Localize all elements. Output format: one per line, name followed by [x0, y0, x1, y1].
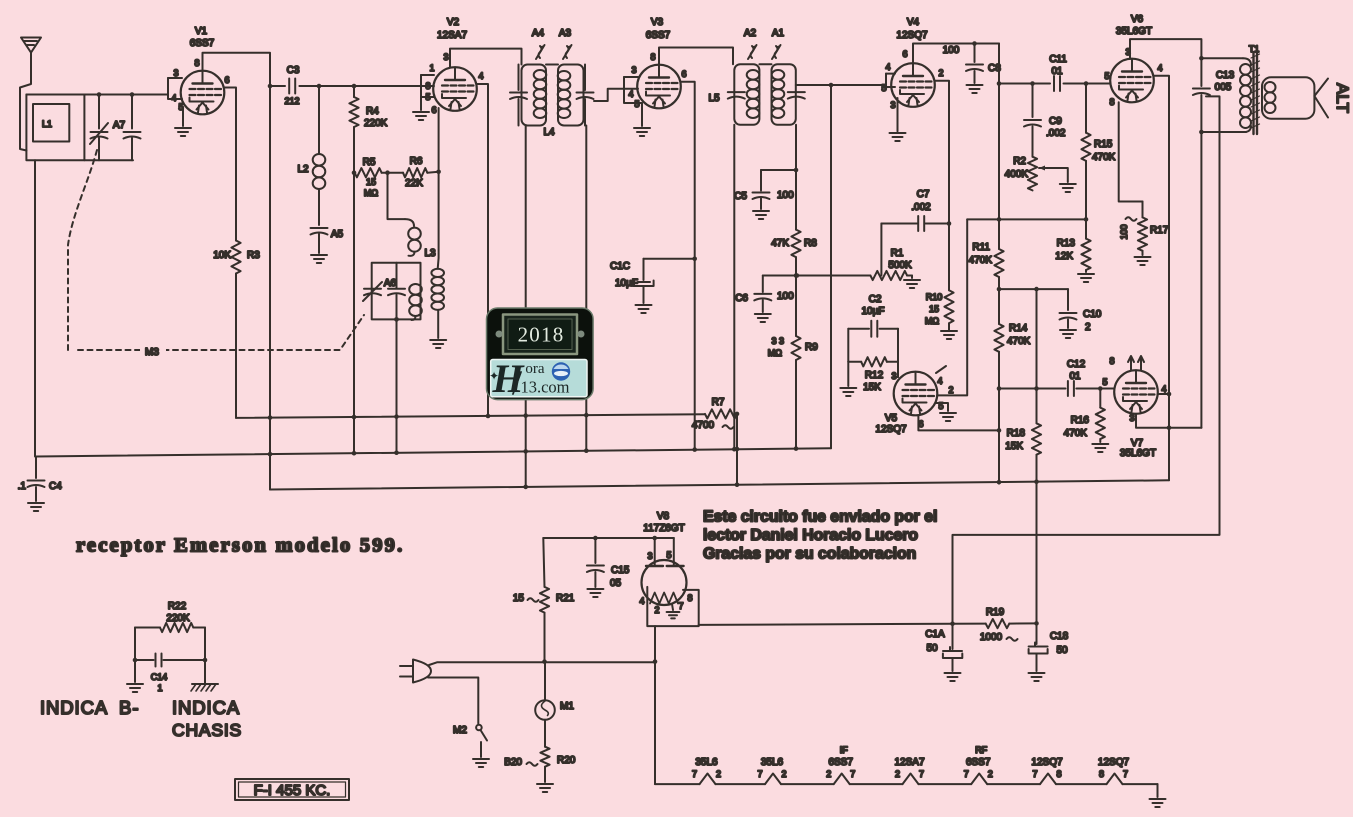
junction: [317, 84, 322, 89]
pin 5 V4: [881, 74, 895, 93]
svg-text:R19: R19: [986, 607, 1005, 618]
svg-text:8: 8: [1109, 356, 1114, 366]
svg-text:V8: V8: [657, 511, 670, 522]
wire plate return to V7: [1169, 427, 1201, 429]
pin 8 V6: [1109, 97, 1142, 202]
svg-text:470K: 470K: [1064, 428, 1088, 439]
coil L4 primary: [534, 70, 547, 118]
svg-text:400K: 400K: [1005, 169, 1029, 180]
pin 6 V3: [681, 69, 695, 449]
wire V2 pin6 branch: [437, 108, 440, 269]
pin 6 V1: [224, 75, 236, 241]
tube V8 117Z6GT: [642, 511, 687, 605]
junction: [352, 84, 357, 89]
junction: [394, 317, 399, 322]
svg-text:R22: R22: [168, 601, 187, 612]
pin 4 V1: [168, 78, 182, 103]
svg-text:R8: R8: [804, 238, 817, 249]
ground R10: [941, 331, 957, 339]
trimmer A2: [744, 28, 757, 59]
ground R17: [1135, 257, 1151, 265]
svg-text:35L6GT: 35L6GT: [1120, 448, 1156, 459]
svg-text:R12: R12: [865, 370, 884, 381]
svg-text:M3: M3: [145, 347, 159, 358]
tube V3 6SS7: [637, 17, 681, 108]
svg-text:C13: C13: [1216, 70, 1235, 81]
svg-text:A2: A2: [744, 28, 757, 39]
capacitor L5 secondary cap: [788, 92, 805, 99]
svg-text:A1: A1: [772, 28, 785, 39]
trimmer A1: [772, 28, 785, 59]
resistor R5 15Meg: [355, 157, 403, 198]
ground V3: [634, 128, 650, 136]
svg-text:A5: A5: [331, 229, 344, 240]
svg-text:13.com: 13.com: [520, 378, 569, 397]
svg-text:ora: ora: [525, 361, 544, 377]
pin 2 V5: [948, 385, 953, 395]
wire grid wire into V2: [418, 85, 421, 87]
coil L3 oscillator winding: [388, 173, 436, 259]
svg-text:8: 8: [650, 52, 655, 62]
wire A6 to bus B: [396, 319, 398, 452]
svg-text:RF: RF: [975, 745, 987, 755]
svg-text:2018: 2018: [518, 323, 565, 347]
svg-text:05: 05: [610, 578, 622, 589]
svg-text:C1A: C1A: [925, 629, 945, 640]
svg-text:220K: 220K: [364, 118, 388, 129]
wire AVC line: [763, 275, 871, 277]
svg-text:212: 212: [284, 96, 299, 106]
svg-text:4: 4: [171, 93, 176, 103]
antenna: [20, 38, 41, 151]
svg-text:15K: 15K: [863, 382, 881, 393]
svg-text:6SS7: 6SS7: [828, 757, 853, 768]
capacitor C2 10uF: [848, 294, 898, 337]
svg-text:Este circuito fue enviado por: Este circuito fue enviado por el: [703, 509, 937, 526]
svg-text:4: 4: [478, 71, 483, 81]
capacitor A7 fixed section: [113, 95, 141, 161]
svg-text:10µF: 10µF: [862, 306, 885, 317]
coil L5 secondary: [772, 70, 785, 118]
svg-text:3 3: 3 3: [771, 336, 784, 346]
tube heater 6SS7 pins 2-7: [826, 745, 855, 779]
junction: [795, 273, 800, 278]
svg-text:470K: 470K: [1007, 336, 1031, 347]
svg-text:7: 7: [850, 769, 855, 779]
capacitor C8: [966, 44, 1001, 84]
svg-text:Gracias por su colaboracion: Gracias por su colaboracion: [703, 546, 916, 563]
svg-text:6: 6: [431, 105, 436, 115]
junction: [268, 84, 273, 89]
pin 1 V2: [421, 63, 435, 75]
tube V6 35L6GT: [1110, 14, 1154, 102]
resistor R8 47K: [771, 230, 817, 276]
svg-text:470K: 470K: [969, 255, 993, 266]
resistor R10 15Meg: [925, 224, 954, 331]
svg-text:5: 5: [634, 99, 639, 109]
svg-text:R9: R9: [805, 342, 818, 353]
resistor R14 470K: [994, 289, 1030, 484]
ground L3: [430, 340, 446, 348]
coil L5 primary: [747, 70, 760, 118]
svg-text:V6: V6: [1131, 14, 1144, 25]
svg-text:B20: B20: [504, 757, 522, 768]
resistor R22 220K: [135, 601, 205, 632]
svg-text:7: 7: [757, 769, 762, 779]
capacitor C9 002: [1024, 84, 1066, 157]
pin 5 V5: [936, 401, 948, 411]
svg-text:INDICA: INDICA: [172, 697, 240, 718]
svg-text:8: 8: [1099, 769, 1104, 779]
svg-text:6: 6: [918, 419, 923, 429]
svg-text:C1C: C1C: [610, 261, 630, 272]
svg-text:47K: 47K: [771, 238, 789, 249]
pin 3 V5: [891, 371, 898, 381]
svg-text:5: 5: [1102, 377, 1107, 387]
ground C5: [753, 211, 769, 219]
svg-text:12SA7: 12SA7: [894, 757, 924, 768]
svg-text:L2: L2: [297, 164, 309, 175]
trimmer A3: [559, 28, 572, 59]
svg-text:R18: R18: [1007, 428, 1026, 439]
capacitor C14: [133, 628, 208, 694]
wire heater string: [655, 774, 1158, 798]
junction: [997, 428, 1002, 433]
svg-text:2: 2: [1085, 322, 1091, 333]
svg-text:15: 15: [366, 177, 376, 187]
wire plate node down to bus C: [269, 86, 271, 490]
svg-text:C9: C9: [1049, 116, 1062, 127]
wire bus B: [36, 446, 831, 456]
capacitor C15 05: [587, 538, 630, 589]
capacitor C13 005: [1193, 58, 1235, 428]
svg-text:R1: R1: [891, 248, 904, 259]
pin 2 V4 route: [936, 68, 950, 224]
ground V2: [413, 97, 429, 120]
ground C1A: [945, 673, 961, 681]
svg-text:50: 50: [926, 643, 938, 654]
svg-text:lector Daniel Horacio Lucero: lector Daniel Horacio Lucero: [703, 527, 918, 544]
tube V7 35L6GT: [1114, 370, 1158, 459]
pin 5 V3: [624, 89, 642, 126]
transformer T1: [1240, 44, 1260, 134]
tube V2 12SA7: [433, 17, 477, 111]
svg-text:4: 4: [628, 89, 633, 99]
svg-text:4: 4: [1161, 384, 1166, 394]
pin 4 V6: [1154, 63, 1169, 480]
resistor R16 470K: [1064, 389, 1105, 443]
svg-text:R15: R15: [1094, 139, 1113, 150]
ground R16: [1092, 444, 1108, 452]
junction: [1098, 386, 1103, 391]
wire detector output line: [999, 388, 1037, 390]
ground V1 cathode: [175, 128, 191, 136]
tube heater 35L6 pins 7-2: [692, 757, 721, 779]
watermark Hora13: [487, 308, 594, 401]
svg-text:100: 100: [777, 190, 794, 201]
svg-text:15K: 15K: [1005, 441, 1023, 452]
chassis ground symbol: [191, 660, 218, 691]
capacitor A6 fixed: [388, 263, 405, 320]
ground V8 center: [667, 604, 680, 618]
wire L1 bottom: [84, 159, 133, 161]
ground C8: [967, 85, 983, 93]
svg-text:12SQ7: 12SQ7: [1031, 757, 1063, 768]
svg-text:A4: A4: [532, 28, 545, 39]
svg-text:005: 005: [1215, 82, 1232, 93]
capacitor A6 variable: [363, 282, 382, 301]
coil L3 main winding: [431, 269, 444, 338]
svg-text:INDICA: INDICA: [40, 697, 108, 718]
svg-text:8: 8: [1109, 97, 1114, 107]
resistor R13 12K: [1055, 219, 1090, 272]
svg-text:35L6: 35L6: [761, 757, 784, 768]
wire T1 primary return: [1201, 131, 1246, 133]
wire R7 to bus C: [735, 414, 740, 485]
ground R12: [840, 388, 856, 396]
svg-text:6SS7: 6SS7: [966, 757, 991, 768]
svg-text:01: 01: [1051, 66, 1063, 77]
speaker ALT: [1262, 77, 1352, 118]
svg-text:R17: R17: [1150, 225, 1169, 236]
tube V1 6SS7: [181, 26, 225, 114]
wire R18 drop: [1036, 289, 1038, 388]
wire AC hot: [429, 659, 655, 665]
svg-text:12SA7: 12SA7: [437, 30, 467, 41]
resistor R15 470K: [1081, 84, 1115, 220]
svg-text:R2: R2: [1013, 156, 1026, 167]
svg-text:2: 2: [938, 68, 943, 78]
pin 3 V4: [890, 98, 897, 131]
svg-text:IF: IF: [840, 745, 849, 755]
svg-text:.002: .002: [911, 202, 931, 213]
junction: [1030, 81, 1035, 86]
ground C15: [587, 589, 603, 597]
pin 5 V2: [421, 86, 434, 102]
svg-text:3: 3: [1129, 413, 1134, 423]
junction: [1034, 386, 1039, 391]
capacitor A7 variable section: [90, 95, 108, 161]
svg-text:R16: R16: [1071, 415, 1090, 426]
svg-text:117Z6GT: 117Z6GT: [643, 523, 685, 534]
svg-text:7: 7: [964, 769, 969, 779]
capacitor C5 100: [734, 170, 796, 209]
svg-text:7: 7: [1123, 769, 1128, 779]
resistor R11 470K: [969, 219, 1004, 289]
svg-text:C3: C3: [287, 65, 300, 76]
svg-text:6: 6: [224, 75, 229, 85]
capacitor C11 01: [1049, 54, 1110, 91]
pin 5 V6: [1104, 71, 1109, 81]
svg-text:L4: L4: [543, 127, 555, 138]
capacitor A5: [311, 228, 344, 253]
resistor R2 400K potentiometer: [1005, 156, 1068, 190]
pin 6 V5: [918, 415, 999, 430]
resistor R18 15K: [1005, 389, 1041, 624]
svg-text:C5: C5: [734, 191, 747, 202]
svg-text:4: 4: [1157, 63, 1162, 73]
ground C1C: [636, 305, 652, 313]
tube V5 12SQ7: [875, 372, 937, 435]
svg-text:2: 2: [988, 769, 993, 779]
wire to V5 plate: [938, 219, 967, 395]
wire bus A plate supply: [236, 413, 705, 420]
pin 3 V3: [624, 65, 638, 77]
label INDICA B-: [40, 697, 140, 718]
capacitor C1C: [610, 259, 695, 303]
ground B minus symbol: [127, 660, 143, 692]
svg-text:2: 2: [948, 385, 953, 395]
svg-text:7: 7: [692, 769, 697, 779]
filament V8: [650, 593, 684, 616]
resistor R19 1000: [953, 607, 1037, 643]
svg-text:12SQ7: 12SQ7: [875, 424, 907, 435]
junction: [947, 221, 952, 226]
ground C4: [28, 503, 44, 511]
coil L2: [297, 86, 325, 225]
tube heater 35L6 pins 7-2: [757, 757, 786, 779]
svg-text:7: 7: [678, 601, 683, 611]
tube heater 12SQ7 pins 8-7: [1098, 757, 1130, 779]
svg-text:R10: R10: [926, 292, 943, 302]
tube heater 12SA7 pins 2-7: [894, 757, 924, 779]
junction: [385, 170, 390, 175]
wire R4 line to bus B: [353, 173, 355, 454]
pin 4 V4: [885, 62, 895, 74]
resistor R1 500K: [870, 248, 912, 280]
svg-text:M2: M2: [453, 725, 467, 736]
svg-text:8: 8: [687, 593, 692, 603]
wire M3 tuning gang dashed: [68, 150, 364, 358]
capacitor C1A 50: [925, 624, 962, 671]
lamp M1: [535, 662, 574, 720]
junction: [352, 170, 357, 175]
svg-text:12SQ7: 12SQ7: [1098, 757, 1130, 768]
coil L1 loop antenna box: [26, 95, 84, 161]
svg-text:12K: 12K: [1055, 251, 1073, 262]
junction: [1034, 621, 1039, 626]
svg-text:C2: C2: [869, 294, 882, 305]
capacitor C7 002: [881, 189, 949, 231]
svg-text:100: 100: [777, 291, 794, 302]
svg-text:4700: 4700: [692, 420, 715, 431]
svg-text:01: 01: [1069, 371, 1081, 382]
junction: [1084, 81, 1089, 86]
wire left riser to bus: [34, 160, 36, 456]
pin 4 V5: [936, 366, 946, 386]
svg-text:R3: R3: [247, 250, 260, 261]
pin 3 V1: [168, 68, 182, 78]
svg-text:2: 2: [895, 769, 900, 779]
ground C18: [1029, 673, 1045, 681]
pin 8 V2: [421, 75, 434, 91]
wire antenna input bus: [26, 94, 168, 96]
svg-text:V2: V2: [447, 17, 460, 28]
wire plate supply riser V4: [997, 44, 1002, 220]
wire R12 ground lead: [847, 362, 849, 386]
svg-text:C12: C12: [1067, 359, 1086, 370]
svg-text:C18: C18: [1050, 631, 1069, 642]
tube heater 6SS7 pins 7-2: [964, 745, 993, 779]
wire grid lead to V4: [796, 84, 886, 86]
coil L4 secondary: [558, 71, 571, 118]
junction: [436, 170, 441, 175]
pin 3 V7: [1129, 413, 1171, 430]
svg-text:C14: C14: [151, 672, 168, 682]
svg-text:4: 4: [639, 596, 644, 606]
svg-text:V3: V3: [651, 17, 664, 28]
junction: [1034, 287, 1039, 292]
capacitor C18 50: [1029, 623, 1069, 671]
wire AC neutral: [428, 678, 478, 724]
resistor R3 10K: [213, 241, 260, 418]
transformer L4 cans: [522, 65, 584, 139]
svg-text:35L6: 35L6: [695, 757, 718, 768]
svg-text:R11: R11: [972, 242, 990, 253]
svg-text:3: 3: [891, 371, 896, 381]
svg-text:R5: R5: [363, 157, 376, 168]
wire C13 return: [953, 96, 1220, 623]
svg-text:✦: ✦: [489, 369, 499, 383]
wire rectifier output: [699, 621, 955, 626]
caption receptor Emerson modelo 599: [76, 535, 404, 557]
capacitor C12 01: [1037, 359, 1114, 396]
svg-text:1: 1: [157, 683, 162, 693]
svg-text:2: 2: [716, 769, 721, 779]
svg-text:5: 5: [881, 83, 886, 93]
wire C7 to R1: [880, 224, 882, 276]
svg-text:10µF: 10µF: [615, 278, 638, 289]
svg-text:R4: R4: [366, 106, 379, 117]
ground R2: [1060, 184, 1076, 192]
svg-text:ALT: ALT: [1333, 83, 1352, 113]
ground R1: [904, 276, 920, 289]
svg-text:15: 15: [929, 304, 939, 314]
label INDICA CHASIS: [172, 697, 242, 740]
resistor R12 15K: [848, 329, 898, 393]
svg-text:R13: R13: [1057, 238, 1076, 249]
svg-text:50: 50: [1056, 645, 1068, 656]
resistor R17 100: [1119, 202, 1169, 256]
ground M2: [473, 759, 489, 767]
wire heater drop: [653, 626, 658, 784]
svg-text:4: 4: [885, 62, 890, 72]
svg-text:M1: M1: [560, 701, 574, 712]
svg-text:15: 15: [513, 593, 525, 604]
svg-text:100: 100: [943, 45, 960, 56]
tube V4 12SQ7: [891, 17, 935, 107]
ground V5 pin5: [940, 413, 956, 421]
pin 8 V1 plate route: [194, 53, 270, 86]
svg-text:F-I 455 KC.: F-I 455 KC.: [254, 782, 331, 799]
svg-text:3: 3: [173, 68, 178, 78]
wire to T1 primary: [1201, 57, 1243, 59]
svg-text:C4: C4: [49, 481, 62, 492]
svg-text:1000: 1000: [980, 632, 1003, 643]
svg-text:3: 3: [443, 52, 448, 62]
svg-text:R21: R21: [556, 593, 575, 604]
pin 5 V1: [178, 102, 183, 126]
resistor R7 4700: [692, 397, 737, 431]
pin 4 pin 8 V8 box: [639, 587, 698, 626]
pin 4 V3: [624, 77, 638, 99]
ground R13: [1078, 274, 1094, 282]
svg-text:10K: 10K: [213, 250, 231, 261]
svg-text:100: 100: [1119, 224, 1129, 239]
coil L3 tap winding: [409, 284, 422, 320]
svg-text:C11: C11: [1049, 54, 1067, 65]
svg-text:5: 5: [938, 401, 943, 411]
